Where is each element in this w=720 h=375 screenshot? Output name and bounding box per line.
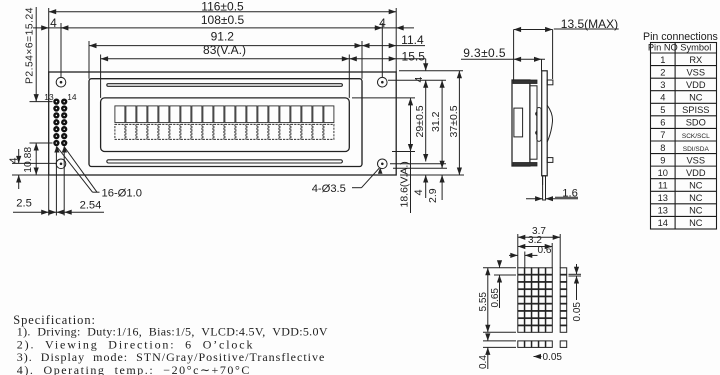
pin connections table grid <box>651 43 717 230</box>
dot matrix dimension 0.05 bottom <box>534 356 542 358</box>
dimension 18.6(V.A.) <box>410 98 412 213</box>
side view: connector pin below pcb <box>543 176 546 200</box>
dot matrix dimension 3.2 <box>518 246 552 248</box>
side view: top mounting tab <box>547 80 553 85</box>
svg-text:11.4: 11.4 <box>401 33 424 47</box>
svg-text:Pin NO: Pin NO <box>648 43 678 53</box>
svg-text:VDD: VDD <box>686 80 706 90</box>
svg-text:13.5(MAX): 13.5(MAX) <box>561 17 618 31</box>
svg-text:9: 9 <box>660 155 665 165</box>
side view: bezel bottom flange (filled) <box>513 163 537 167</box>
main view: character cells row 2 <box>115 124 334 139</box>
svg-text:16-Ø1.0: 16-Ø1.0 <box>102 188 142 200</box>
svg-text:13: 13 <box>658 206 668 216</box>
svg-text:4: 4 <box>50 16 57 30</box>
svg-text:6: 6 <box>660 118 665 128</box>
dot matrix dimension 0.4 <box>483 340 516 342</box>
svg-text:15.5: 15.5 <box>402 49 426 63</box>
svg-text:Pin connections: Pin connections <box>643 31 718 43</box>
svg-text:4: 4 <box>660 93 665 103</box>
svg-text:0.65: 0.65 <box>490 288 501 308</box>
svg-text:10.88: 10.88 <box>23 147 34 173</box>
bottom-left extension lines <box>48 175 50 216</box>
main view: bottom glass edge slot <box>107 160 343 163</box>
side view dimension 13.5(MAX) <box>513 30 515 81</box>
svg-text:5: 5 <box>660 105 665 115</box>
svg-text:2.5: 2.5 <box>16 198 32 210</box>
side view: PCB board <box>542 71 548 176</box>
svg-text:P2.54×6=15.24: P2.54×6=15.24 <box>25 7 36 84</box>
main view: LCD bezel frame <box>89 79 362 167</box>
main view: character cells row 1 <box>115 106 334 123</box>
mounting hole top-right <box>378 77 388 87</box>
side view dimension 9.3±0.5 <box>541 59 543 71</box>
dimension 4 (top right vertical) and 29±0.5 <box>425 59 427 71</box>
svg-text:1: 1 <box>660 55 665 65</box>
main view: display window (viewing area) <box>101 98 350 152</box>
dot matrix: separated right column <box>560 268 567 333</box>
svg-text:SCK/SCL: SCK/SCL <box>682 133 710 140</box>
dot matrix dimension 0.05 right <box>569 273 582 275</box>
side view: LCD glass <box>530 86 537 159</box>
dimension 83(V.A.) window width <box>101 58 350 60</box>
svg-text:18.6(V.A.): 18.6(V.A.) <box>399 161 411 207</box>
dot matrix dimension 0.6 <box>509 254 518 256</box>
side view: zebra nubs <box>535 112 538 115</box>
side view: zebra connector stadium <box>537 108 541 142</box>
svg-text:NC: NC <box>689 93 703 103</box>
pin header holes 2x7 <box>54 100 66 145</box>
svg-text:4). Operating temp.: −20°c∼: 4). Operating temp.: −20°c∼+70°C <box>17 363 251 375</box>
dimension 31.2 and 2.9 <box>441 80 443 168</box>
svg-text:11: 11 <box>658 181 668 191</box>
svg-text:RX: RX <box>689 55 702 65</box>
mounting hole bottom-left <box>56 159 66 169</box>
svg-text:VSS: VSS <box>686 155 705 165</box>
svg-text:14: 14 <box>658 218 668 228</box>
side view: bottom mounting tab <box>547 158 553 163</box>
svg-text:0.6: 0.6 <box>538 245 552 256</box>
main view: top glass edge slot <box>107 84 343 87</box>
svg-text:4: 4 <box>413 77 425 83</box>
svg-text:SPISS: SPISS <box>682 105 709 115</box>
side view: spring clip arc <box>547 105 552 142</box>
dimension 108±0.5 with 4/4 side dims <box>33 27 68 29</box>
dot matrix: separated bottom row <box>518 341 567 348</box>
svg-text:31.2: 31.2 <box>430 111 442 132</box>
svg-text:NC: NC <box>689 181 703 191</box>
side view: bezel top flange (filled) <box>513 80 537 84</box>
dimension 15.5 window-to-pcb-edge <box>349 58 425 60</box>
svg-text:14: 14 <box>67 92 77 102</box>
svg-text:9.3±0.5: 9.3±0.5 <box>463 46 506 60</box>
svg-text:5.55: 5.55 <box>478 292 489 312</box>
dot matrix dimension 5.55 <box>483 267 516 269</box>
svg-text:NC: NC <box>689 218 703 228</box>
main view: PCB outline <box>49 72 397 175</box>
svg-text:13: 13 <box>658 193 668 203</box>
svg-text:0.05: 0.05 <box>572 302 583 322</box>
dot matrix dimension 0.65 <box>494 274 516 276</box>
dimension 11.4 bezel-to-pcb-edge <box>362 45 425 47</box>
svg-text:10: 10 <box>658 168 668 178</box>
dimension 37±0.5 <box>458 71 460 175</box>
svg-text:4-Ø3.5: 4-Ø3.5 <box>312 183 346 195</box>
svg-text:108±0.5: 108±0.5 <box>201 13 245 27</box>
svg-text:91.2: 91.2 <box>211 29 235 43</box>
svg-text:3: 3 <box>660 80 665 90</box>
svg-text:SDO: SDO <box>686 118 706 128</box>
svg-text:29±0.5: 29±0.5 <box>414 105 426 137</box>
svg-text:37±0.5: 37±0.5 <box>448 105 460 137</box>
svg-text:4: 4 <box>413 189 425 195</box>
svg-text:83(V.A.): 83(V.A.) <box>203 43 246 57</box>
mounting hole top-left <box>56 77 66 87</box>
dimension 2.5 <box>13 211 104 213</box>
svg-text:2.54: 2.54 <box>80 199 102 211</box>
svg-text:0.4: 0.4 <box>478 355 489 369</box>
svg-text:0.05: 0.05 <box>543 352 563 363</box>
svg-text:2.9: 2.9 <box>427 188 439 203</box>
side view dimension 1.6 <box>542 176 544 185</box>
dimension 91.2 bezel width <box>89 45 362 47</box>
dimension 116±0.5 <box>49 11 397 13</box>
svg-text:4: 4 <box>379 16 386 30</box>
side view: bezel body <box>512 80 530 166</box>
side view: reflector rect <box>514 108 523 137</box>
dimension 4 (left bottom) <box>18 149 20 163</box>
mounting hole bottom-right <box>378 159 388 169</box>
dot matrix: main 5x9 grid <box>518 268 553 333</box>
svg-text:VDD: VDD <box>686 168 706 178</box>
svg-text:VSS: VSS <box>686 67 705 77</box>
svg-text:Symbol: Symbol <box>680 43 711 53</box>
svg-text:NC: NC <box>689 193 703 203</box>
extension lines top <box>48 8 50 72</box>
svg-text:2: 2 <box>660 67 665 77</box>
right extension lines <box>399 70 463 72</box>
dot matrix extension lines top <box>517 234 519 268</box>
svg-text:NC: NC <box>689 206 703 216</box>
svg-text:116±0.5: 116±0.5 <box>201 0 244 13</box>
svg-text:8: 8 <box>660 143 665 153</box>
svg-text:4: 4 <box>8 157 20 163</box>
dot matrix dimension 3.7 <box>518 236 560 238</box>
svg-text:SDI/SDA: SDI/SDA <box>683 146 710 153</box>
svg-text:7: 7 <box>660 130 665 140</box>
svg-text:13: 13 <box>44 92 54 102</box>
